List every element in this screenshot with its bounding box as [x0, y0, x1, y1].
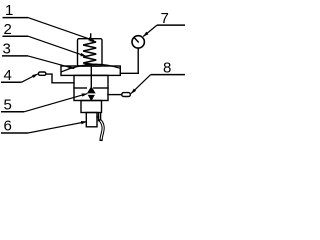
svg-text:8: 8	[163, 60, 171, 77]
svg-text:6: 6	[4, 118, 12, 135]
svg-text:4: 4	[4, 67, 12, 84]
svg-text:3: 3	[3, 41, 11, 58]
svg-text:5: 5	[4, 97, 12, 114]
svg-text:7: 7	[161, 10, 169, 27]
svg-text:1: 1	[5, 2, 13, 19]
svg-text:2: 2	[4, 21, 12, 38]
